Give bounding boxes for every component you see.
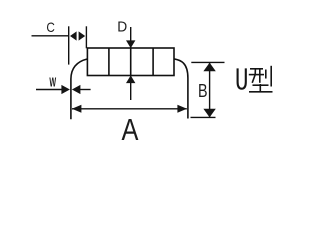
dimension W leader line	[36, 89, 63, 91]
arrowhead D up	[126, 75, 135, 83]
hanzi 型 bottom bar of 土	[249, 91, 273, 93]
label A	[122, 113, 139, 148]
bobbin divider 2 (center)	[130, 48, 132, 76]
hanzi 型 short stroke of 刂	[265, 70, 267, 79]
arrowhead C right	[79, 31, 86, 40]
label C	[46, 20, 55, 35]
svg-text:W: W	[49, 77, 56, 91]
hanzi 型 long stroke of 刂	[270, 66, 272, 87]
left shoulder and wall of U base	[71, 59, 88, 119]
dimension C left extension line	[68, 26, 70, 64]
right shoulder and wall of U base	[174, 59, 188, 119]
hanzi 型 second bar of 开	[249, 74, 264, 76]
arrowhead B up	[203, 63, 215, 72]
arrowhead B down	[203, 109, 215, 118]
dimension B line	[209, 63, 211, 118]
dimension D line	[130, 27, 132, 100]
svg-text:A: A	[122, 113, 139, 148]
core body rectangle (coil bobbin)	[87, 48, 174, 76]
dimension C leader line	[32, 35, 69, 37]
dimension C right extension line	[85, 26, 87, 48]
label D	[117, 18, 127, 34]
hanzi 型 right leg of 开	[259, 69, 261, 83]
hanzi 型 middle bar of 土	[253, 84, 269, 86]
label W	[49, 77, 56, 91]
dimension A line	[72, 108, 187, 110]
arrowhead C left	[70, 31, 77, 40]
bobbin divider 3	[152, 48, 154, 76]
svg-text:C: C	[46, 20, 55, 35]
label U of "U型"	[238, 68, 246, 88]
arrowhead A right	[177, 105, 187, 113]
bobbin divider 1	[108, 48, 110, 76]
arrowhead W pointing right	[61, 85, 70, 94]
svg-text:D: D	[117, 18, 127, 34]
hanzi 型 left leg of 开	[252, 69, 255, 83]
svg-text:B: B	[198, 80, 208, 101]
dimension B top extension line	[191, 61, 224, 63]
arrowhead A left	[72, 105, 82, 113]
label B	[198, 80, 208, 101]
dimension W right stub line	[80, 89, 91, 91]
hanzi 型 vertical of 土	[259, 84, 261, 91]
arrowhead W pointing left	[72, 85, 81, 94]
arrowhead D down	[126, 40, 135, 48]
dimension B bottom extension line	[191, 116, 216, 118]
hanzi 型 (type) top bar of 开	[249, 66, 273, 92]
